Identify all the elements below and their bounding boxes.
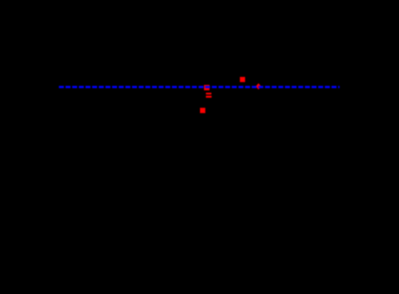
red square marker B (above the line) bbox=[240, 77, 245, 82]
red square marker A (on the dashed line) bbox=[204, 85, 210, 90]
red short bar marker 1 bbox=[206, 93, 212, 95]
red diamond marker D (on the dashed line) bbox=[256, 83, 262, 89]
red square marker C (below the line) bbox=[200, 108, 205, 113]
red short bar marker 2 bbox=[206, 96, 212, 98]
blue dashed horizontal line bbox=[59, 86, 340, 88]
